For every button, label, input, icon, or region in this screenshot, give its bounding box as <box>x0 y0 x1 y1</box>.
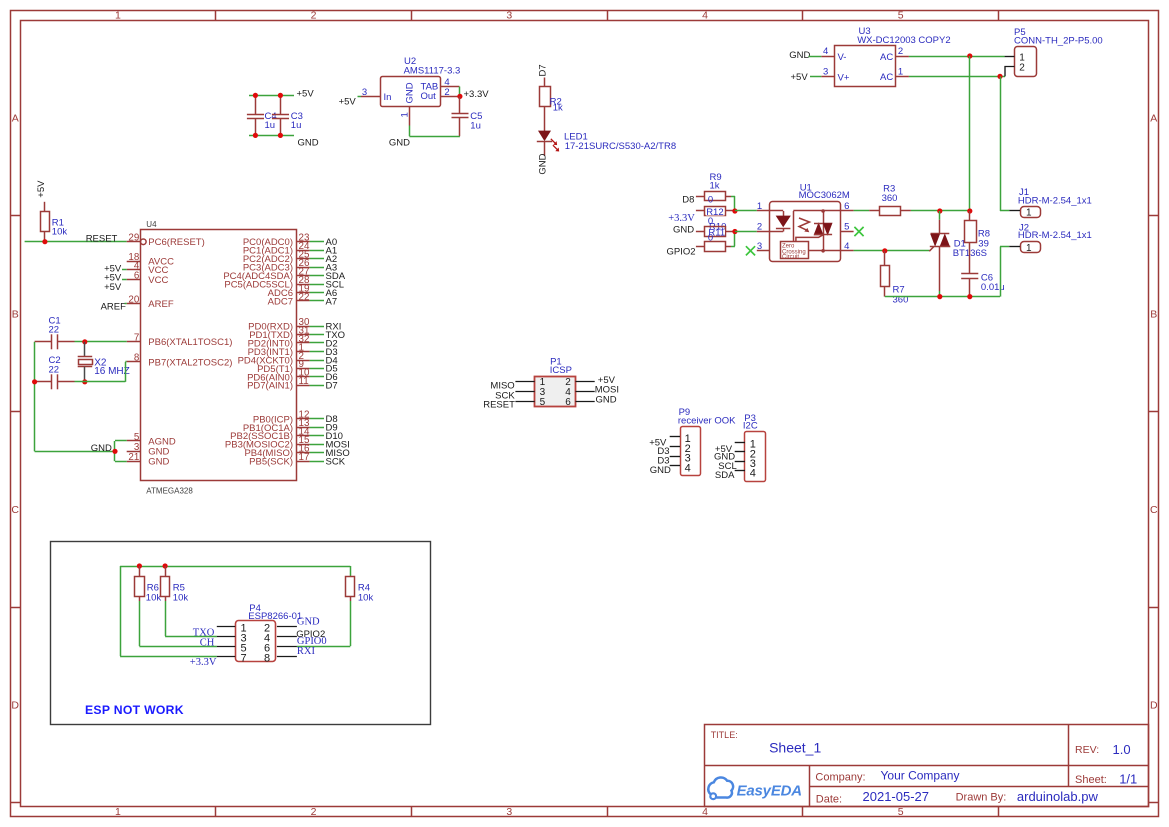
svg-text:5: 5 <box>898 10 904 22</box>
svg-text:REV:: REV: <box>1075 744 1099 756</box>
svg-text:2: 2 <box>757 222 762 233</box>
svg-text:21: 21 <box>128 452 139 463</box>
svg-text:U4: U4 <box>146 220 157 229</box>
svg-text:2021-05-27: 2021-05-27 <box>863 789 930 804</box>
junction R8 top <box>967 208 972 213</box>
wire U3 AC1 to node <box>909 76 1005 78</box>
svg-text:3: 3 <box>506 806 512 818</box>
ESP8266 section box <box>51 542 431 725</box>
wire C2 row to U4 pin8 <box>75 381 126 383</box>
svg-text:3: 3 <box>757 241 762 252</box>
wire GND rail <box>249 135 294 137</box>
junction R12 node <box>732 208 737 213</box>
svg-text:D: D <box>11 700 19 712</box>
svg-text:Sheet_1: Sheet_1 <box>769 740 821 756</box>
wire AC1 vertical drop to J1 <box>1000 76 1002 211</box>
connector P1 ICSP <box>515 357 594 409</box>
svg-text:1.0: 1.0 <box>1113 742 1131 757</box>
svg-text:5: 5 <box>844 222 849 233</box>
svg-text:6: 6 <box>844 201 849 212</box>
svg-text:PB5(SCK): PB5(SCK) <box>249 457 293 468</box>
svg-text:2: 2 <box>311 10 317 22</box>
svg-text:4: 4 <box>823 46 828 57</box>
wire U1 pin4 to gate <box>854 250 930 252</box>
capacitor C2 22 <box>35 355 75 389</box>
svg-text:1: 1 <box>1026 243 1032 254</box>
svg-text:SCK: SCK <box>326 457 346 468</box>
connector P4 ESP8266-01 <box>217 603 302 664</box>
wire D7 to R2 <box>544 78 546 87</box>
wire GND stub U3 pin4 <box>809 56 822 58</box>
svg-text:arduinolab.pw: arduinolab.pw <box>1017 789 1099 804</box>
connector J2 HDR-M-2.54_1x1 <box>1009 222 1092 254</box>
svg-text:receiver OOK: receiver OOK <box>678 416 736 427</box>
svg-text:2: 2 <box>898 46 903 57</box>
junction AC2 tap <box>967 53 972 58</box>
junction R11 node <box>732 229 737 234</box>
svg-text:5: 5 <box>540 397 546 408</box>
svg-text:GND: GND <box>297 617 320 628</box>
svg-text:10k: 10k <box>173 593 189 604</box>
svg-text:D7: D7 <box>538 64 549 76</box>
svg-text:1: 1 <box>1026 208 1032 219</box>
junction R1 to RESET <box>42 239 47 244</box>
svg-text:4: 4 <box>844 241 849 252</box>
svg-text:4: 4 <box>702 806 708 818</box>
no-connect X on U1 pin5 <box>854 227 863 236</box>
svg-text:1: 1 <box>115 806 121 818</box>
svg-text:AREF: AREF <box>148 299 174 310</box>
wire C1 to U4 pin7 <box>75 341 127 343</box>
svg-text:Drawn By:: Drawn By: <box>956 792 1007 804</box>
svg-text:GND: GND <box>405 82 416 103</box>
svg-text:B: B <box>1150 308 1157 320</box>
svg-text:CONN-TH_2P-P5.00: CONN-TH_2P-P5.00 <box>1014 36 1103 47</box>
svg-text:CH: CH <box>200 637 215 648</box>
resistor (GPIO2 row) <box>696 242 731 252</box>
svg-text:RESET: RESET <box>483 400 515 411</box>
capacitor C1 22 <box>35 316 75 350</box>
resistor R10/R11 0 (GND row) <box>696 221 735 243</box>
svg-text:2: 2 <box>1019 63 1025 74</box>
MCU U4 ATMEGA328 <box>127 220 310 495</box>
svg-text:D: D <box>1150 700 1158 712</box>
svg-text:SDA: SDA <box>715 470 735 481</box>
svg-text:+3.3V: +3.3V <box>464 89 490 100</box>
junction X2 bottom <box>82 379 87 384</box>
svg-text:3: 3 <box>506 10 512 22</box>
svg-text:+5V: +5V <box>339 96 357 107</box>
svg-text:6: 6 <box>134 270 140 281</box>
wire bottom bus MT1 <box>885 296 1000 298</box>
resistor R1 10k <box>41 202 68 242</box>
svg-text:V-: V- <box>838 52 847 63</box>
wire U2 GND to C5 <box>409 126 411 137</box>
junction C6 bottom <box>967 294 972 299</box>
svg-text:4: 4 <box>750 468 756 480</box>
svg-text:PD7(AIN1): PD7(AIN1) <box>247 381 293 392</box>
capacitor C3 <box>272 95 303 135</box>
resistor R6 10k <box>135 566 162 604</box>
junction GND node <box>112 449 117 454</box>
svg-text:EasyEDA: EasyEDA <box>737 783 802 800</box>
svg-text:7: 7 <box>240 652 246 664</box>
svg-text:D7: D7 <box>326 381 338 392</box>
wire D8 row to node <box>731 196 735 198</box>
svg-text:ICSP: ICSP <box>550 365 572 376</box>
svg-text:RESET: RESET <box>86 233 118 244</box>
svg-text:Your Company: Your Company <box>881 769 960 783</box>
resistor R12 0 (+3.3V row) <box>696 207 735 227</box>
svg-text:11: 11 <box>299 376 309 387</box>
wire pin4 to +3.3V node <box>459 87 461 97</box>
connector P9 receiver OOK <box>670 407 736 476</box>
svg-text:AREF: AREF <box>101 301 127 312</box>
wire LED1 to GND <box>544 141 546 156</box>
svg-text:HDR-M-2.54_1x1: HDR-M-2.54_1x1 <box>1018 196 1092 207</box>
svg-text:1k: 1k <box>553 103 563 114</box>
svg-text:+3.3V: +3.3V <box>190 657 217 668</box>
svg-text:RXI: RXI <box>297 646 316 657</box>
svg-text:Circuit: Circuit <box>782 254 799 260</box>
svg-text:PB6(XTAL1TOSC1): PB6(XTAL1TOSC1) <box>148 337 232 348</box>
svg-text:22: 22 <box>49 325 60 336</box>
svg-text:GND: GND <box>389 138 410 149</box>
wire R5 to P4 pin3 TXO <box>165 601 167 636</box>
svg-text:1k: 1k <box>710 181 720 192</box>
svg-text:10k: 10k <box>52 227 68 238</box>
module U3 WX-DC12003 COPY2 <box>821 26 950 86</box>
svg-text:3: 3 <box>823 67 828 78</box>
svg-text:6: 6 <box>565 397 571 408</box>
svg-text:C: C <box>11 504 19 516</box>
junction +3.3V node <box>457 94 462 99</box>
svg-text:GND: GND <box>596 394 617 405</box>
junction R5 top <box>163 563 168 568</box>
svg-text:17-21SURC/S530-A2/TR8: 17-21SURC/S530-A2/TR8 <box>565 141 676 152</box>
wire +3.3V rail to P4 pin7 <box>120 566 122 656</box>
svg-text:1u: 1u <box>265 120 276 131</box>
svg-text:1u: 1u <box>470 120 481 131</box>
resistor R5 10k <box>161 566 189 604</box>
svg-text:D8: D8 <box>682 194 694 205</box>
svg-text:8: 8 <box>264 652 270 664</box>
junction AC1 tap <box>997 74 1002 79</box>
optocoupler U1 MOC3062M <box>757 182 854 261</box>
junction <box>253 93 258 98</box>
connector J1 HDR-M-2.54_1x1 <box>1009 187 1092 219</box>
svg-text:AC: AC <box>880 72 893 83</box>
junction C2 left <box>32 379 37 384</box>
svg-text:16 MHZ: 16 MHZ <box>94 366 130 377</box>
wire R2 to LED1 <box>544 107 546 132</box>
wires and net labels on U4 right side <box>310 237 350 467</box>
svg-text:22: 22 <box>299 292 310 303</box>
svg-text:1: 1 <box>898 67 903 78</box>
svg-text:ADC7: ADC7 <box>268 296 293 307</box>
wire U1 pin6 to R3 <box>854 210 870 212</box>
capacitor C5 <box>452 96 483 136</box>
svg-text:Date:: Date: <box>816 793 842 805</box>
svg-text:PB7(XTAL2TOSC2): PB7(XTAL2TOSC2) <box>148 357 232 368</box>
svg-text:GND: GND <box>91 443 112 454</box>
svg-text:GND: GND <box>673 224 694 235</box>
svg-text:ESP NOT WORK: ESP NOT WORK <box>85 703 184 717</box>
capacitor C6 0.01u <box>961 273 1004 297</box>
triac D1 BT136S <box>929 211 987 297</box>
junction R6 top <box>137 563 142 568</box>
regulator U2 AMS1117-3.3 <box>361 56 460 126</box>
svg-text:+5V: +5V <box>104 282 122 293</box>
svg-text:A: A <box>1150 113 1157 125</box>
svg-text:1: 1 <box>757 201 762 212</box>
svg-text:360: 360 <box>882 193 898 204</box>
junction D1 bottom <box>937 294 942 299</box>
LED LED1 17-21SURC/S530-A2/TR8 <box>537 131 676 152</box>
svg-text:MOC3062M: MOC3062M <box>799 190 850 201</box>
svg-text:2: 2 <box>311 806 317 818</box>
svg-text:WX-DC12003 COPY2: WX-DC12003 COPY2 <box>857 35 950 46</box>
resistor R8 39 <box>965 211 991 273</box>
svg-text:GPIO2: GPIO2 <box>667 246 696 257</box>
wire bus up to J2 <box>1000 247 1002 297</box>
svg-text:TITLE:: TITLE: <box>711 730 738 740</box>
svg-text:Out: Out <box>421 91 437 102</box>
svg-text:0: 0 <box>708 195 713 206</box>
wire +3.3V top rail <box>120 566 350 568</box>
wire +5V rail <box>249 95 294 97</box>
wire R6 to P4 pin5 CH <box>139 601 141 646</box>
wire GND jog verticals <box>114 441 116 461</box>
resistor R4 10k <box>346 566 374 604</box>
svg-text:GND: GND <box>298 137 319 148</box>
svg-text:7: 7 <box>134 333 139 344</box>
connector P5 CONN-TH_2P-P5.00 <box>1005 27 1103 77</box>
svg-text:4: 4 <box>685 462 691 474</box>
svg-text:39: 39 <box>978 238 989 249</box>
EasyEDA logo <box>708 777 802 799</box>
svg-text:AMS1117-3.3: AMS1117-3.3 <box>404 65 461 76</box>
svg-text:22: 22 <box>49 364 60 375</box>
svg-text:A: A <box>12 113 19 125</box>
no-connect X on U1 pin3 <box>746 246 755 255</box>
svg-text:GND: GND <box>537 153 548 174</box>
svg-text:1u: 1u <box>291 120 302 131</box>
resistor R3 360 <box>869 183 911 215</box>
svg-text:GND: GND <box>650 465 671 476</box>
resistor R7 360 <box>881 251 909 306</box>
crystal X2 16 MHZ <box>78 342 130 382</box>
svg-text:8: 8 <box>134 353 140 364</box>
wire AC2 vertical drop <box>969 56 971 211</box>
svg-text:1: 1 <box>399 112 410 117</box>
svg-text:VCC: VCC <box>148 275 168 286</box>
title block <box>705 725 1149 807</box>
junction X2 top <box>82 339 87 344</box>
svg-text:2: 2 <box>444 87 449 98</box>
junction R7 tap <box>882 248 887 253</box>
svg-text:Sheet:: Sheet: <box>1075 774 1107 786</box>
svg-text:5: 5 <box>898 806 904 818</box>
svg-text:4: 4 <box>702 10 708 22</box>
wire GPIO2 row to node <box>731 246 735 248</box>
svg-text:B: B <box>12 308 19 320</box>
connector P3 I2C <box>735 413 766 482</box>
svg-text:Company:: Company: <box>815 771 865 783</box>
wire R4 to P4 pin6 GPIO0 <box>350 601 352 646</box>
wire node to U1 pin2 <box>735 231 757 233</box>
wire +5V stub U3 pin3 <box>810 76 821 78</box>
svg-text:+5V: +5V <box>791 72 809 83</box>
svg-text:I2C: I2C <box>743 421 758 432</box>
svg-text:GND: GND <box>789 50 810 61</box>
svg-text:ATMEGA328: ATMEGA328 <box>146 486 193 495</box>
svg-text:In: In <box>384 92 392 103</box>
svg-text:+5V: +5V <box>297 89 315 100</box>
svg-text:GND: GND <box>148 457 169 468</box>
svg-text:10k: 10k <box>358 593 374 604</box>
svg-text:3: 3 <box>362 87 367 98</box>
junction D1 top <box>937 208 942 213</box>
svg-text:+5V: +5V <box>36 180 47 198</box>
svg-text:A7: A7 <box>326 296 338 307</box>
svg-text:10k: 10k <box>146 593 162 604</box>
wire node to U1 pin1 <box>735 210 757 212</box>
wire U3 AC2 to P5 pin1 <box>909 56 1005 58</box>
resistor R9 1k (D8 row) <box>696 172 731 206</box>
svg-text:29: 29 <box>128 233 139 244</box>
svg-text:AC: AC <box>880 52 893 63</box>
svg-text:20: 20 <box>128 294 139 305</box>
svg-text:+3.3V: +3.3V <box>668 213 695 224</box>
svg-text:PC6(RESET): PC6(RESET) <box>148 237 204 248</box>
wire RESET net <box>25 241 127 243</box>
capacitor C4 <box>247 95 277 135</box>
svg-text:1/1: 1/1 <box>1119 771 1137 786</box>
svg-text:HDR-M-2.54_1x1: HDR-M-2.54_1x1 <box>1018 230 1092 241</box>
resistor R2 1k <box>540 87 563 114</box>
wire R3 to AC2 node <box>911 210 970 212</box>
svg-text:V+: V+ <box>838 73 850 84</box>
svg-text:1: 1 <box>115 10 121 22</box>
svg-text:C: C <box>1150 504 1158 516</box>
wire left vertical +XTAL ground loop <box>34 342 36 452</box>
wire AC1 elbow to J1 <box>1000 210 1009 212</box>
svg-text:17: 17 <box>299 452 310 463</box>
wire ground loop to U4 GND pins <box>35 451 115 453</box>
